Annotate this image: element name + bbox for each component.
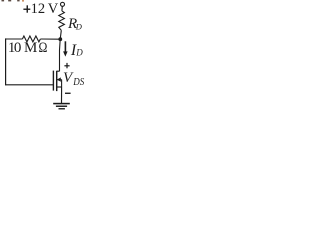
svg-text:DS: DS [72,77,84,88]
wire: bottom horizontal to gate [6,84,53,86]
transistor Q1 source stub [57,86,62,88]
transistor Q1 body arrow (points to channel) [57,77,62,81]
supply terminal (open circle) [61,2,65,6]
wire: resistor RD bottom to drain node [60,30,61,39]
resistor R1 10 Mohm (horizontal zigzag) [22,36,40,42]
ground symbol [53,103,70,110]
wire: terminal to resistor RD [61,6,63,11]
transistor Q1 (NMOS) gate bar [52,71,54,91]
label 10 Mohm value [8,39,48,56]
current arrow ID [63,41,68,56]
transistor Q1 drain stub [57,70,60,72]
wire: 10M resistor to top-left corner [6,38,23,40]
svg-text:D: D [75,22,83,32]
node: drain junction dot [58,37,62,41]
wire: body arrow to source stub [61,80,63,87]
wire: source to ground [61,87,63,103]
svg-text:M: M [24,40,37,56]
svg-text:Ω: Ω [39,39,48,56]
transistor Q1 channel bar [56,71,58,91]
svg-text:12: 12 [31,1,45,17]
wire: drain node down to transistor drain [59,39,62,71]
svg-text:V: V [48,1,59,17]
svg-text:0: 0 [14,40,22,56]
background [0,0,90,118]
cropped text remnants (top edge) [2,0,24,2]
minus sign (VDS polarity) [65,93,71,94]
wire: left vertical (feedback to gate) [5,38,7,85]
wire: drain node to 10M resistor (right segment) [40,38,60,40]
resistor RD (vertical zigzag) [59,11,65,30]
plus sign (VDS polarity) [64,63,69,68]
label +12 V (supply voltage): plus drawn for exact shape [23,5,30,12]
svg-text:D: D [75,48,83,58]
